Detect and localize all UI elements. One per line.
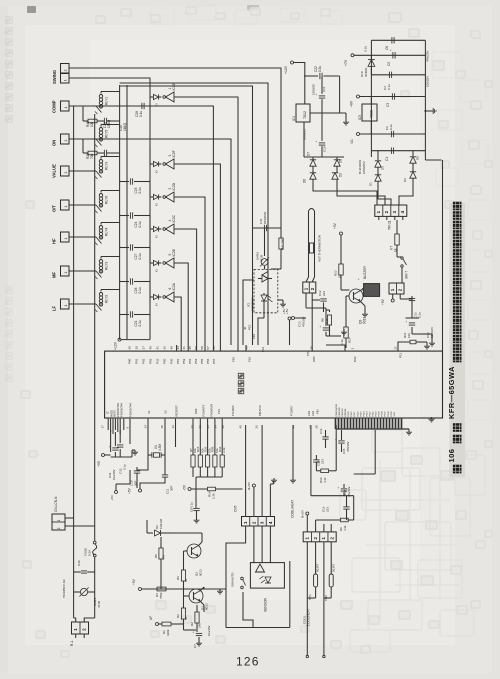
ground comb — [408, 429, 410, 430]
svg-text:+12V: +12V — [284, 65, 288, 74]
svg-text:P108: P108 — [382, 411, 384, 417]
svg-text:+5V: +5V — [333, 222, 337, 229]
wire c10 net — [137, 455, 148, 470]
wire coil RLY3 top — [101, 256, 120, 258]
wire HF row — [69, 236, 92, 238]
svg-text:1B1Q: 1B1Q — [123, 122, 127, 131]
svg-text:47k: 47k — [162, 555, 166, 560]
relay coil RLY3 — [99, 260, 102, 263]
svg-text:BUZ: BUZ — [353, 356, 357, 362]
wire +12V to IC4 — [294, 63, 305, 105]
wire VALUE row — [69, 170, 92, 172]
capacitor C6 — [391, 37, 393, 43]
connector MF — [61, 266, 70, 276]
wire comb pins — [335, 418, 337, 429]
wire bus B — [126, 85, 128, 340]
svg-text:+5V: +5V — [110, 495, 114, 500]
wire IC2A output to MCU — [174, 297, 181, 351]
svg-text:RLY4: RLY4 — [105, 228, 109, 236]
svg-text:1B3/250V: 1B3/250V — [263, 212, 267, 224]
svg-text:AVSS: AVSS — [113, 410, 117, 417]
svg-text:28: 28 — [135, 346, 139, 350]
svg-text:C21: C21 — [322, 86, 326, 92]
diode D5 — [412, 151, 414, 156]
svg-text:SWING: SWING — [52, 70, 57, 84]
svg-text:IC2B: IC2B — [172, 248, 176, 256]
wire pin6 — [129, 419, 131, 444]
svg-text:RLY3: RLY3 — [105, 162, 109, 170]
wire uf to c7 — [183, 624, 185, 630]
wire q1 base — [184, 595, 190, 597]
svg-text:+5V: +5V — [381, 298, 385, 305]
wire bridge to TR pin2 — [337, 184, 385, 205]
svg-text:1: 1 — [64, 206, 68, 208]
svg-text:MOC3061: MOC3061 — [251, 297, 255, 311]
triac in IC1 — [262, 275, 268, 282]
buzzer BUZZER — [364, 284, 380, 297]
capacitor C3 — [391, 93, 393, 99]
wire IC2C left node — [149, 228, 151, 230]
resistor R11 10k — [410, 340, 416, 344]
capacitor C24 — [120, 215, 129, 217]
relay coil RLY3 — [99, 160, 102, 163]
svg-text:126: 126 — [236, 655, 260, 669]
ground cn5b — [292, 478, 294, 480]
capacitor C15 470/16V — [338, 440, 344, 442]
svg-text:28: 28 — [315, 425, 319, 429]
svg-text:RLY3: RLY3 — [105, 262, 109, 270]
diode D6 — [312, 170, 314, 173]
svg-text:AN5: AN5 — [312, 356, 316, 362]
svg-text:3: 3 — [168, 188, 172, 190]
capacitor C10 30P — [134, 470, 140, 472]
wire IC1 left — [243, 280, 254, 345]
svg-text:49: 49 — [170, 346, 174, 350]
wire coil RLY4 top — [101, 222, 120, 224]
svg-text:40: 40 — [239, 425, 243, 429]
wire bridge to TR pin1 — [313, 184, 377, 205]
svg-text:CN-LCN-N: CN-LCN-N — [54, 496, 58, 512]
svg-text:P55: P55 — [200, 358, 204, 364]
svg-text:10u/16V: 10u/16V — [207, 625, 211, 636]
svg-text:700: 700 — [90, 153, 94, 159]
wire th dn — [315, 587, 317, 598]
svg-text:4.3M: 4.3M — [158, 444, 162, 451]
relay contact RLY4 — [92, 236, 96, 238]
wire buz v2 — [340, 275, 342, 290]
svg-text:10k: 10k — [407, 333, 411, 338]
svg-text:⊗+5V: ⊗+5V — [301, 510, 305, 518]
svg-text:41: 41 — [156, 346, 160, 350]
svg-text:IC2C: IC2C — [172, 214, 176, 222]
svg-text:D7: D7 — [307, 152, 311, 156]
svg-text:P100/INT44: P100/INT44 — [129, 403, 133, 417]
svg-text:IC4: IC4 — [292, 116, 296, 121]
svg-text:59: 59 — [194, 346, 198, 350]
wire IC2B output to MCU — [174, 263, 188, 351]
connector CN-THERM — [303, 282, 316, 293]
resistor R4 750k — [157, 587, 166, 591]
wire buz pin — [345, 345, 347, 348]
op-amp in sensor — [256, 564, 265, 572]
wire rail top — [371, 39, 425, 41]
svg-text:1: 1 — [64, 238, 68, 240]
svg-text:P117: P117 — [354, 411, 356, 417]
terminal +5V mid — [115, 491, 118, 494]
svg-text:+6V: +6V — [350, 100, 354, 107]
svg-text:0.1U: 0.1U — [364, 46, 368, 52]
wire buz lead — [363, 289, 364, 291]
svg-text:P91: P91 — [135, 358, 139, 364]
wire cn links — [65, 517, 74, 519]
svg-text:4.3k: 4.3k — [323, 477, 327, 483]
diode D9 — [336, 170, 338, 173]
relay coil RLY4 — [99, 226, 102, 229]
svg-text:14: 14 — [144, 425, 148, 429]
svg-text:1: 1 — [64, 107, 68, 109]
svg-text:7812: 7812 — [303, 111, 307, 119]
wire coil RLY6 top — [101, 190, 120, 192]
switch SW/AUTO — [241, 577, 244, 580]
connector CN-CH — [303, 532, 336, 542]
svg-text:⊗+5V: ⊗+5V — [247, 482, 251, 490]
ground q row — [219, 589, 221, 591]
svg-text:D4: D4 — [403, 178, 407, 182]
resistor R9 4.3k — [341, 518, 349, 522]
capacitor C13 (elec) — [323, 327, 329, 329]
ic U-MCU box — [105, 351, 443, 418]
svg-text:P93: P93 — [232, 357, 236, 362]
connector HF — [61, 232, 70, 242]
wire ON row — [69, 138, 92, 140]
wire psu v1 — [339, 76, 341, 113]
svg-text:SENSOR: SENSOR — [264, 597, 268, 612]
svg-text:KI: KI — [155, 203, 159, 206]
thermistor TH2 — [329, 574, 333, 587]
capacitor C22 0.5u — [304, 75, 318, 77]
resistor R15 10k — [199, 419, 201, 455]
wire q2 up — [199, 542, 203, 546]
svg-text:P120/NT0: P120/NT0 — [202, 404, 206, 416]
svg-text:P120: P120 — [348, 411, 350, 417]
svg-text:RLY6: RLY6 — [105, 196, 109, 204]
svg-text:IN4001: IN4001 — [364, 67, 368, 77]
svg-text:KFR—65GWA: KFR—65GWA — [447, 366, 456, 419]
resistor R1 330k — [162, 622, 171, 626]
op-amp buffer IC2F — [163, 163, 166, 166]
wire q3 collector — [361, 288, 364, 291]
svg-text:TC3/250V AC: TC3/250V AC — [62, 578, 66, 598]
svg-text:9013: 9013 — [205, 603, 209, 610]
transistor Q2 9013 — [187, 544, 201, 558]
svg-text:0.1u: 0.1u — [138, 221, 142, 227]
wire MCU bl pins — [107, 419, 109, 430]
terminal +5V cn5 — [252, 484, 255, 487]
capacitor C32 0.1u — [117, 444, 123, 446]
wire r9 row — [316, 519, 341, 521]
wire mcu bl down — [110, 430, 112, 452]
svg-text:750k: 750k — [159, 592, 163, 599]
wire cn5 dn — [226, 526, 246, 562]
wire q2 base — [184, 550, 188, 552]
svg-text:+: + — [108, 446, 112, 448]
svg-text:0.1u: 0.1u — [123, 464, 127, 470]
svg-text:P10: P10 — [248, 324, 252, 330]
svg-text:D1: D1 — [369, 182, 373, 186]
connector CN-L/CN-N — [52, 514, 65, 530]
wire pin stub 176 — [176, 345, 178, 351]
svg-text:471R: 471R — [260, 254, 264, 262]
wire coil RLY3 top — [101, 156, 120, 158]
svg-text:56: 56 — [212, 346, 216, 350]
wire U1 row — [360, 133, 426, 135]
op-amp buffer IC2A — [163, 296, 166, 299]
svg-text:R2: R2 — [176, 614, 180, 618]
wire D4 to TR pin4 — [399, 183, 413, 205]
svg-text:P114: P114 — [363, 411, 365, 417]
wire c21 — [321, 76, 323, 94]
svg-text:57: 57 — [206, 346, 210, 350]
capacitor C31 (elec) — [112, 447, 118, 449]
wire IC2E output to MCU — [174, 97, 238, 351]
wire c33 row — [400, 298, 412, 300]
ground IC1 — [278, 299, 283, 301]
svg-text:+5V: +5V — [97, 460, 101, 467]
svg-text:P63: P63 — [248, 357, 252, 362]
wire D1 to TR pin3 — [378, 186, 391, 205]
svg-text:MF: MF — [52, 272, 57, 278]
resistor R14 2.2k — [208, 487, 216, 491]
svg-text:50JAT: 50JAT — [332, 564, 336, 572]
relay coil RLY6 — [99, 194, 102, 197]
svg-text:R41 300: R41 300 — [281, 238, 285, 250]
ground pin21 — [426, 344, 428, 346]
svg-text:1: 1 — [64, 172, 68, 174]
decorative margin bleed text — [6, 17, 13, 123]
wire link ON-IC2F — [149, 150, 151, 165]
capacitor C8 0.1u — [193, 507, 199, 509]
relay contact RLY3 — [92, 170, 96, 172]
crystal X1 4.3M — [154, 453, 160, 457]
svg-text:R5: R5 — [154, 554, 158, 558]
wire th stub circles — [306, 655, 308, 657]
wire C41 row — [253, 227, 282, 229]
svg-text:UF: UF — [149, 616, 153, 620]
terminal +5V therm — [292, 317, 295, 320]
svg-text:C8 0.1u: C8 0.1u — [190, 502, 194, 512]
svg-text:2.2k: 2.2k — [212, 493, 216, 499]
svg-text:CN5: CN5 — [234, 505, 238, 512]
resistor R8 4.3k — [327, 315, 331, 325]
wire IC4 gnd — [310, 112, 346, 114]
capacitor C28 — [141, 103, 143, 109]
label mitsubishi chip — [238, 373, 244, 379]
svg-text:PB0/SB: PB0/SB — [345, 408, 347, 416]
wire bus A — [119, 85, 121, 340]
svg-text:P53: P53 — [188, 358, 192, 364]
relay contact RLY2 — [92, 303, 96, 305]
op-amp buffer IC2B — [163, 262, 166, 265]
wire c8 gnd — [196, 518, 198, 520]
svg-text:44: 44 — [176, 346, 180, 350]
svg-text:21: 21 — [394, 346, 398, 350]
relay coil RLY2 — [99, 293, 102, 296]
svg-text:0.1u: 0.1u — [138, 187, 142, 193]
svg-text:KI: KI — [155, 170, 159, 173]
svg-text:58: 58 — [200, 346, 204, 350]
terminal +5V (buzzer) — [340, 232, 343, 235]
wire +7V row — [354, 54, 425, 56]
wire bus mid — [150, 139, 231, 345]
terminal U1 — [357, 133, 360, 136]
svg-text:36: 36 — [255, 425, 259, 429]
svg-text:C13: C13 — [319, 428, 323, 434]
capacitor C5 (elec) — [392, 52, 394, 58]
capacitor C23 — [120, 181, 129, 183]
svg-text:47K/25V: 47K/25V — [426, 50, 430, 62]
svg-text:330k: 330k — [166, 629, 170, 636]
diode input IC2D — [150, 196, 153, 198]
svg-text:27: 27 — [142, 346, 146, 350]
svg-text:R6: R6 — [176, 576, 180, 580]
svg-text:RLY2: RLY2 — [105, 295, 109, 303]
resistor R23 10 — [339, 264, 343, 275]
svg-text:D3: D3 — [381, 166, 385, 170]
ic IC1 MOC3061 box — [254, 269, 278, 312]
svg-text:P57: P57 — [212, 358, 216, 364]
svg-text:+12V: +12V — [114, 341, 118, 350]
wire IC2C output to MCU — [174, 229, 197, 351]
diode D10 IN4001 — [370, 55, 372, 59]
svg-text:IC2A: IC2A — [172, 282, 176, 290]
svg-text:9013: 9013 — [363, 317, 367, 324]
wire cn5 gnd — [270, 483, 273, 485]
svg-text:+: + — [357, 278, 361, 280]
svg-text:5: 5 — [168, 254, 172, 256]
svg-text:C5: C5 — [387, 62, 391, 66]
resistor R6 1k — [183, 551, 185, 570]
svg-text:2.2k: 2.2k — [222, 447, 226, 453]
terminal +5V mcu — [102, 454, 105, 457]
wire fuse dn — [94, 557, 96, 618]
ic IC3 7806 — [362, 104, 377, 121]
connector SWING pin 2 — [61, 64, 70, 74]
svg-text:0.1u: 0.1u — [138, 320, 142, 326]
resistor R24 5.1k — [345, 296, 347, 327]
svg-text:R24: R24 — [348, 337, 352, 343]
wire SWING-1 long — [69, 68, 281, 228]
svg-text:P109: P109 — [379, 411, 381, 417]
wire top long bus — [120, 86, 253, 345]
connector ON — [61, 134, 70, 144]
svg-text:PB3(S1)/S33: PB3(S1)/S33 — [336, 403, 338, 417]
svg-text:P81/NTO: P81/NTO — [258, 405, 262, 416]
svg-text:4.3k: 4.3k — [343, 525, 347, 531]
diode input IC2E — [150, 96, 153, 98]
resistor R12 24k — [195, 612, 199, 623]
ic SENSOR box — [250, 563, 284, 589]
relay coil RLY1 — [99, 95, 102, 98]
wire coil RLY1 top — [101, 91, 120, 93]
varistor UAR2 471R — [264, 228, 266, 256]
ground right low — [431, 417, 433, 419]
svg-text:+: + — [192, 631, 196, 633]
wire c10 dn — [136, 473, 138, 488]
wire link OT-IC2C — [149, 216, 151, 230]
resistor R7 10k — [192, 419, 194, 455]
svg-text:471R: 471R — [97, 600, 101, 608]
svg-text:C3: C3 — [386, 103, 390, 107]
svg-text:P54: P54 — [194, 358, 198, 364]
svg-text:+: + — [315, 141, 319, 143]
svg-text:1: 1 — [64, 305, 68, 307]
svg-text:15: 15 — [160, 425, 164, 429]
wire IC2F output to MCU — [174, 164, 220, 351]
wire KT2 — [396, 245, 398, 257]
wire COMP to MCU pin — [92, 106, 213, 351]
label title text — [453, 465, 462, 474]
svg-text:D6: D6 — [303, 179, 307, 183]
svg-text:+5V: +5V — [282, 309, 286, 314]
diode D3 — [377, 151, 379, 160]
svg-text:P51: P51 — [176, 358, 180, 364]
capacitor C33 0.1u — [409, 297, 415, 299]
wire swauto dn — [243, 592, 253, 628]
wire c12 r8 — [323, 303, 325, 313]
wire link MF-IC2A — [149, 282, 151, 298]
op-amp buffer IC2D — [163, 196, 166, 199]
svg-text:2: 2 — [64, 70, 68, 72]
terminal +5V ch — [306, 512, 309, 515]
svg-text:24k: 24k — [198, 623, 202, 628]
wire IC2A left node — [149, 296, 151, 298]
thermistor TH1 — [314, 574, 318, 587]
diode D4 — [412, 168, 414, 172]
svg-text:29: 29 — [128, 346, 132, 350]
svg-text:IC3: IC3 — [358, 115, 362, 120]
svg-text:COMP: COMP — [52, 100, 57, 113]
wire SWING-2 down bus — [69, 78, 150, 340]
svg-text:P105: P105 — [391, 411, 393, 417]
wire ch up — [306, 515, 308, 532]
terminal +5V moc — [288, 317, 291, 320]
svg-text:5.1k: 5.1k — [340, 339, 344, 345]
svg-text:RLY5: RLY5 — [105, 130, 109, 138]
wire rarray bus — [196, 476, 222, 478]
terminal +6V — [357, 95, 360, 98]
wire r14 row — [191, 488, 208, 490]
wire rc v1 — [310, 425, 312, 496]
wire top long bus 2 — [120, 83, 268, 345]
op-amp buffer IC2E — [163, 96, 166, 99]
transistor Q1 9013 — [189, 589, 203, 603]
wire AC rail B — [94, 114, 96, 541]
capacitor C4 0.1u — [388, 72, 390, 78]
svg-text:30P: 30P — [170, 486, 174, 491]
svg-text:1: 1 — [64, 80, 68, 82]
wire rail to corner — [425, 159, 441, 161]
svg-text:AN4: AN4 — [311, 410, 315, 416]
capacitor C16 223 — [343, 506, 349, 508]
wire +6V row — [360, 96, 426, 98]
svg-text:RLY1: RLY1 — [105, 97, 109, 105]
svg-text:P12: P12 — [399, 352, 403, 358]
wire c8 stub — [195, 477, 197, 508]
svg-text:LF: LF — [52, 305, 57, 311]
wire KT — [396, 220, 398, 234]
wire q3 base — [346, 295, 349, 297]
svg-text:1N4148: 1N4148 — [159, 518, 163, 529]
